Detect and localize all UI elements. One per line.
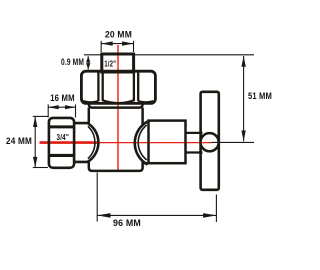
dimension 51 MM xyxy=(212,56,273,142)
svg-text:0.9 MM: 0.9 MM xyxy=(61,57,84,67)
bonnet packing nut xyxy=(149,121,186,164)
svg-text:3/4": 3/4" xyxy=(57,133,70,142)
top nut bottom chamfer curve right facet xyxy=(138,101,153,102)
handle hub ball outline over centerline xyxy=(201,133,219,151)
left port boss xyxy=(75,123,99,162)
right port boss xyxy=(135,122,148,165)
horizontal centerline thick segment (red) xyxy=(40,141,100,144)
dimension 96 MM xyxy=(97,173,216,229)
left hex nut 3/4 inch xyxy=(49,118,74,168)
dimension 24 MM xyxy=(6,116,48,167)
svg-text:96 MM: 96 MM xyxy=(113,218,141,228)
top hex nut xyxy=(81,71,155,103)
svg-text:1/2": 1/2" xyxy=(104,59,116,68)
dimension 0.9 MM xyxy=(61,56,90,69)
top nut bottom chamfer curve center facet xyxy=(103,100,134,103)
svg-text:20 MM: 20 MM xyxy=(105,29,132,39)
left nut upper chamfer band xyxy=(49,125,74,128)
dimension 16 MM xyxy=(48,93,75,118)
svg-text:51 MM: 51 MM xyxy=(248,91,272,101)
top nut bottom chamfer curve left facet xyxy=(83,101,98,102)
valve stem xyxy=(186,133,203,153)
svg-text:16 MM: 16 MM xyxy=(50,93,75,103)
valve body xyxy=(89,104,149,171)
left boss inner arc xyxy=(88,126,95,158)
horizontal centerline (red) xyxy=(40,142,212,144)
extension line shared by 0.9 MM and 51 MM xyxy=(84,54,254,56)
top outlet port 1/2 inch xyxy=(102,54,134,72)
top nut left chamfer double line xyxy=(97,73,99,102)
right boss inner arc xyxy=(138,125,147,160)
top nut right chamfer double line xyxy=(133,73,135,102)
svg-text:24 MM: 24 MM xyxy=(6,136,32,146)
dimension 20 MM xyxy=(101,29,133,52)
handle tee bar xyxy=(201,92,219,190)
vertical centerline (red) xyxy=(117,45,119,170)
left nut lower chamfer band xyxy=(49,154,74,157)
handle hub ball xyxy=(201,133,219,151)
